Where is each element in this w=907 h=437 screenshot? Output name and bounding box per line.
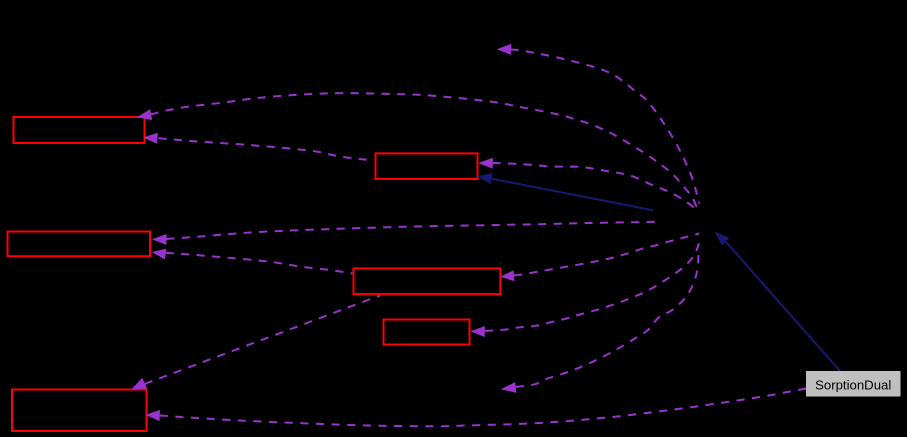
arrowhead I2 (box5) [470, 326, 485, 337]
edge G: box4 to box6 (top arrow) [145, 296, 380, 384]
node box4 (red, center) [354, 268, 501, 294]
node box2 (red, middle upper) [376, 153, 478, 179]
edge H: hub to box4 [514, 234, 699, 276]
arrowhead G (box6 top) [132, 378, 148, 389]
solid inheritance edges (midnightblue) [492, 179, 840, 371]
edge D: hub to box2 corner [492, 179, 654, 211]
edge J: SorptionDual to hub [726, 242, 840, 371]
edge K: SorptionDual to box6 (right arrow) [160, 386, 821, 427]
dashed usage edges (darkorchid) [145, 49, 821, 426]
edge B: hub to box1 (top arrow) [151, 93, 697, 208]
arrowhead J (hub) [715, 232, 730, 246]
dashed edge arrowheads (darkorchid) [132, 44, 517, 421]
node box1 (red, truncated class, top-left) [14, 117, 145, 143]
edge C: hub to box2 (right arrow) [493, 163, 694, 208]
arrowhead D (box2 bottom-right) [477, 173, 493, 184]
svg-text:SorptionDual: SorptionDual [815, 377, 891, 392]
arrowhead C (box2) [478, 158, 493, 169]
edge I: hub to bottom invisible node [516, 253, 699, 387]
edge E: hub to box3 (upper arrow) [166, 222, 660, 239]
arrowhead H (box4) [500, 270, 514, 281]
node SorptionDual (grey current node) [806, 371, 901, 397]
arrowhead K (box6 right) [145, 410, 160, 421]
edge E3: box2 to box1 (lower arrow) [158, 138, 373, 160]
edge A: hub to top invisible node [511, 49, 700, 203]
node box3 (red, middle-left) [8, 232, 151, 257]
node box5 (red, center small) [384, 320, 470, 345]
arrowhead I (bottom) [501, 382, 517, 393]
edge I2: hub to box5 [485, 238, 700, 331]
node box6 (red, bottom-left, two-line) [12, 390, 147, 432]
edge F: box4 to box3 (lower arrow) [166, 253, 353, 274]
arrowhead E3 (box1 lower) [143, 133, 158, 144]
arrowhead E (box3 upper) [152, 234, 167, 245]
arrowhead F (box3 lower) [152, 249, 167, 260]
arrowhead A (top) [497, 44, 512, 55]
arrowhead B (box1 top) [137, 109, 152, 120]
